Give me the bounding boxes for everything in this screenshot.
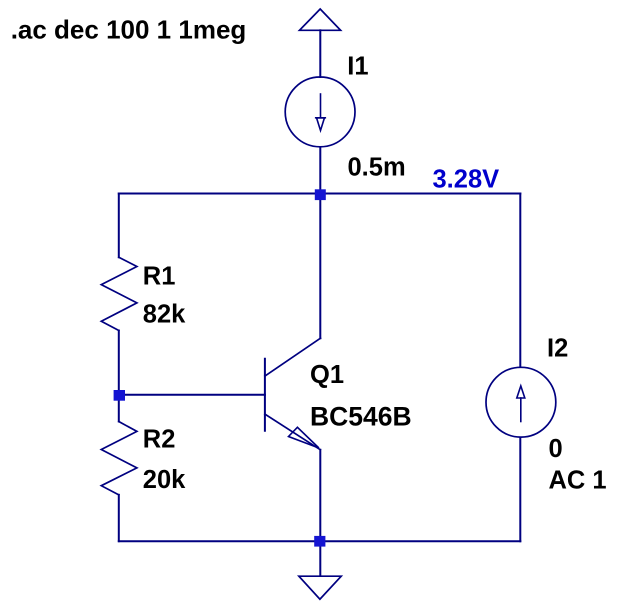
svg-text:20k: 20k (143, 466, 186, 494)
svg-text:AC 1: AC 1 (549, 467, 607, 495)
svg-text:BC546B: BC546B (310, 402, 412, 432)
junction node bottom (314, 536, 325, 547)
wire bottom node to ground (319, 541, 321, 576)
ground symbol (299, 576, 341, 599)
junction node top (315, 189, 326, 200)
wire right rail lower (519, 438, 521, 542)
wire top rail (119, 193, 521, 195)
wire right rail upper (519, 194, 521, 368)
power flag (top arrow symbol) (300, 9, 341, 30)
svg-text:Q1: Q1 (310, 361, 344, 389)
current source I2 (486, 367, 556, 437)
current source I1 (285, 77, 355, 147)
resistor R1 body (101, 257, 137, 330)
svg-text:R1: R1 (143, 262, 176, 290)
wire bottom rail (119, 540, 521, 542)
resistor R2 body (101, 422, 137, 495)
svg-text:3.28V: 3.28V (433, 166, 500, 194)
wire mid node to R2 (118, 395, 120, 422)
wire left rail upper (118, 194, 120, 258)
svg-text:.ac dec 100 1 1meg: .ac dec 100 1 1meg (11, 14, 247, 44)
svg-text:0.5m: 0.5m (348, 154, 406, 182)
wire I1 bottom to top node (319, 148, 321, 194)
svg-text:82k: 82k (143, 301, 186, 329)
svg-text:I2: I2 (547, 335, 568, 363)
junction node mid-left (114, 390, 125, 401)
svg-text:I1: I1 (347, 53, 368, 81)
wire R2 to bottom rail (118, 495, 120, 541)
transistor Q1 (265, 338, 321, 450)
wire emitter to bottom node (319, 450, 321, 542)
svg-text:R2: R2 (143, 426, 176, 454)
wire base (mid node to Q1 base) (119, 394, 265, 396)
wire flag to I1 top (319, 30, 321, 77)
svg-text:0: 0 (549, 435, 563, 463)
wire R1 to mid node (118, 331, 120, 395)
wire collector to top node (319, 194, 321, 339)
